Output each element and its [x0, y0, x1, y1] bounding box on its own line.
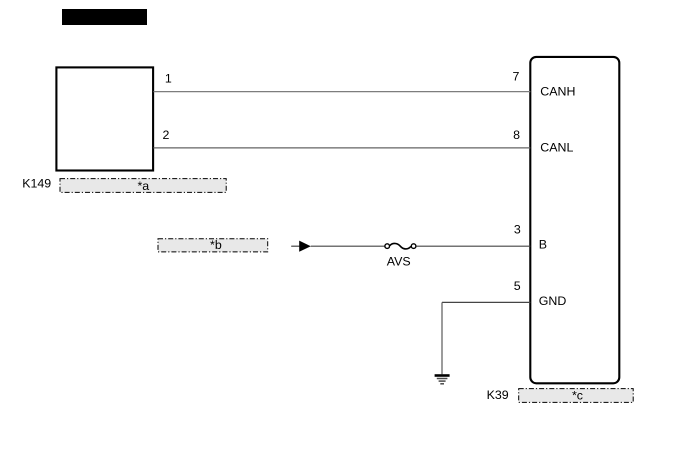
svg-text:CANH: CANH	[540, 85, 575, 99]
svg-text:GND: GND	[539, 294, 567, 308]
wire CANH (pin 1 to pin 7)	[154, 91, 531, 93]
svg-text:B: B	[539, 237, 547, 251]
ECU box K39	[530, 57, 619, 383]
fuse AVS	[385, 244, 390, 249]
wire B stub before arrow	[291, 245, 299, 247]
svg-text:7: 7	[513, 70, 520, 84]
svg-text:2: 2	[163, 128, 170, 142]
svg-text:K39: K39	[487, 388, 509, 402]
connector box K149	[56, 67, 153, 170]
svg-text:CANL: CANL	[540, 141, 573, 155]
svg-text:K149: K149	[22, 177, 51, 191]
svg-text:*b: *b	[210, 238, 222, 252]
redaction box *b	[158, 239, 268, 252]
svg-text:*c: *c	[572, 389, 583, 403]
svg-text:3: 3	[514, 223, 521, 237]
svg-text:AVS: AVS	[387, 255, 411, 269]
svg-text:*a: *a	[137, 179, 149, 193]
wire B (arrow to fuse)	[311, 245, 385, 247]
wire B (fuse to pin 3)	[416, 245, 530, 247]
wire GND horizontal (pin 5 to drop)	[442, 301, 530, 303]
wire CANL (pin 2 to pin 8)	[154, 147, 531, 149]
wire GND vertical drop	[441, 302, 443, 374]
svg-text:5: 5	[514, 279, 521, 293]
redaction box *a	[60, 179, 226, 193]
redacted title block	[62, 9, 147, 25]
redaction box *c	[519, 389, 634, 403]
arrow (power feed)	[299, 241, 311, 252]
svg-text:8: 8	[513, 128, 520, 142]
ground symbol	[435, 376, 450, 384]
svg-text:1: 1	[165, 71, 172, 85]
